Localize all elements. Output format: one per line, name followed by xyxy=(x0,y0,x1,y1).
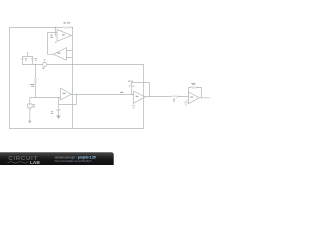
svg-text:http://circuitlab.com/c52u3p7: http://circuitlab.com/c52u3p7 xyxy=(55,159,92,163)
svg-text:LAB: LAB xyxy=(30,160,40,165)
